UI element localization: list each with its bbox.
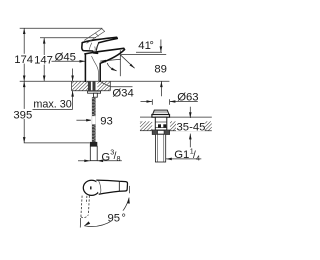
svg-text:max. 30: max. 30	[33, 99, 71, 111]
svg-text:174: 174	[14, 54, 33, 66]
svg-text:93: 93	[100, 115, 113, 127]
svg-text:35-45: 35-45	[177, 121, 206, 133]
svg-text:395: 395	[13, 110, 32, 122]
svg-text:Ø63: Ø63	[177, 91, 198, 103]
svg-text:147: 147	[34, 55, 53, 67]
svg-text:°: °	[149, 40, 154, 52]
svg-text:4: 4	[196, 153, 200, 162]
svg-text:G: G	[101, 151, 110, 163]
svg-text:Ø45: Ø45	[55, 51, 76, 63]
svg-text:95: 95	[108, 213, 121, 225]
svg-text:Ø34: Ø34	[112, 87, 133, 99]
svg-text:G1: G1	[174, 149, 189, 161]
svg-text:8: 8	[117, 154, 121, 163]
svg-text:89: 89	[154, 64, 167, 76]
svg-text:°: °	[121, 213, 126, 225]
